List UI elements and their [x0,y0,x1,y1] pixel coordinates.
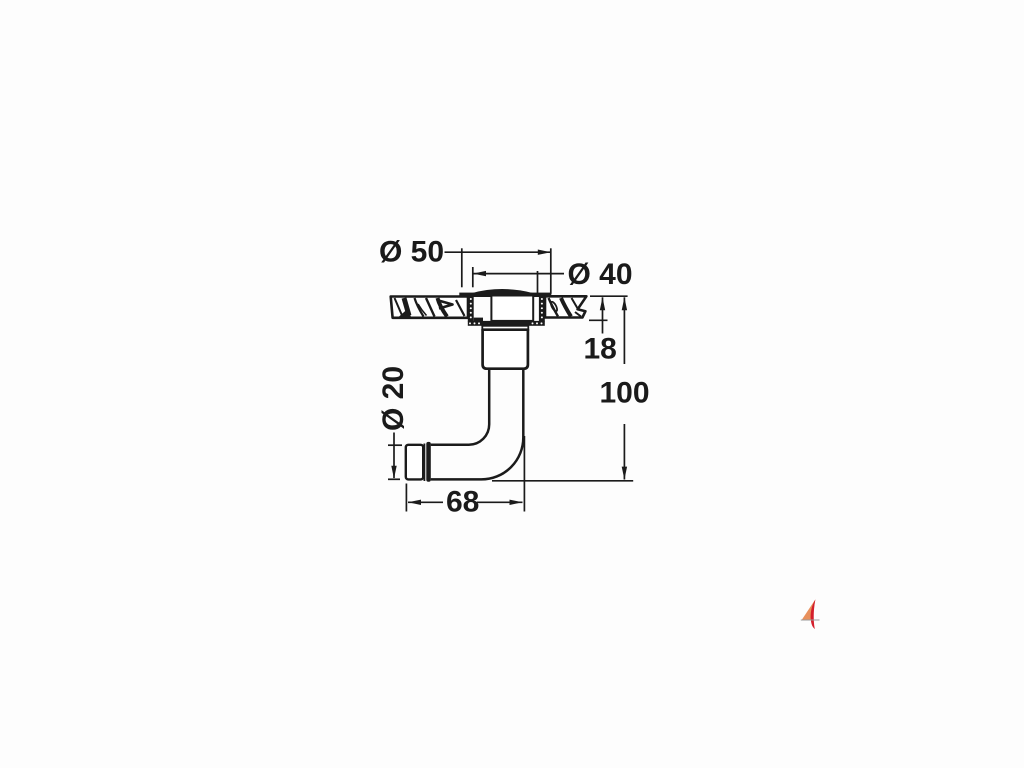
dimension 68 line right [477,501,523,503]
dimension 68 arrow left [408,500,421,505]
logo sail triangle [802,600,815,620]
dimension Ø50 line [445,251,551,253]
inner hub [491,296,533,321]
dimension 100 line lower [623,424,625,480]
elbow tube inner edge [431,370,490,445]
dimension 68 arrow right [510,500,523,505]
barrel bottom ring band [468,318,545,326]
dimension Ø20 line [393,433,395,479]
extension line 18 bottom tick [589,319,608,321]
svg-text:Ø 50: Ø 50 [379,236,444,269]
extension line 68 left [405,484,407,512]
dimension Ø40 arrow [473,271,486,276]
hose barb body [406,445,423,480]
deck panel left section [391,297,468,318]
dimension Ø40 line [473,273,564,275]
hose barb ring [423,444,425,482]
extension line 68 right [523,436,525,512]
extension tick Ø20 top [388,444,402,446]
svg-text:18: 18 [584,333,617,366]
logo baseline [801,619,820,621]
collar washer [482,326,528,330]
dimension 68 line left [408,501,443,503]
dimension 100 arrow up [622,297,627,310]
dimension 100 arrow down [622,467,627,480]
extension line Ø50 right [550,248,552,293]
logo sail red swoosh [811,599,816,629]
extension line 100 bottom [492,480,633,482]
extension tick Ø20 bottom [388,478,400,480]
threaded barrel left side [468,295,474,322]
extension line panel top right [590,295,628,297]
flange plate [459,293,551,297]
svg-text:68: 68 [446,486,479,519]
extension line Ø50 left [461,248,463,287]
deck panel right section (with break edge) [545,296,586,317]
elbow tube outer edge [431,370,524,480]
dimension 18 arrow [600,297,605,310]
extension line Ø40 right [537,271,539,294]
dimension 100 line upper [623,297,625,364]
flange dome [472,289,534,295]
nut body [483,330,528,369]
threaded barrel right side [539,295,545,322]
svg-text:Ø 20: Ø 20 [377,366,410,431]
svg-text:100: 100 [600,377,650,410]
dimension Ø50 arrow [538,250,551,255]
dimension Ø20 arrow [391,466,396,479]
svg-text:Ø 40: Ø 40 [568,258,633,291]
extension line Ø40 left [472,267,474,287]
dimension 18 line [602,297,604,333]
